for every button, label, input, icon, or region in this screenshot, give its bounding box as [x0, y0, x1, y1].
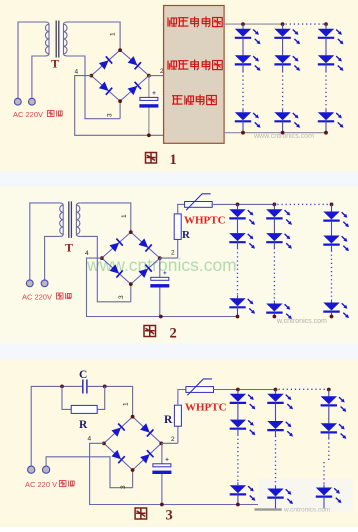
- LED string 2 bottom junction (fig2): [273, 315, 277, 319]
- wire (fig2): [237, 307, 239, 316]
- dotted wire: more LEDs (fig2): [273, 248, 275, 300]
- junction cap/minus rail (fig3): [160, 503, 164, 507]
- wire LED plus rail (fig3): [213, 389, 276, 391]
- wire (fig1): [242, 64, 244, 71]
- wire secondary bottom to node 3 (fig2): [81, 236, 131, 301]
- LED 3-3 (fig1): [318, 112, 334, 120]
- wire (fig2): [331, 221, 333, 236]
- wire LED minus rail (fig1): [224, 132, 326, 134]
- node 2 junction (fig1): [147, 74, 151, 78]
- LED string 1 top junction (fig2): [236, 203, 240, 207]
- wire (fig2): [237, 218, 239, 233]
- svg-text:1: 1: [170, 152, 177, 168]
- node 3 junction (fig3): [131, 468, 135, 472]
- dotted wire: more LEDs (fig1): [282, 71, 284, 108]
- wire (fig2): [273, 204, 275, 209]
- dotted wire: more LEDs (fig2): [237, 248, 239, 295]
- svg-text:1: 1: [110, 32, 117, 36]
- LED 3-2 (fig2): [323, 236, 339, 244]
- dotted wire: more LEDs (fig3): [328, 438, 330, 462]
- LED string 2 top junction (fig3): [274, 388, 278, 392]
- wire primary top (fig1): [18, 22, 45, 98]
- white watermark panel (fig3): [258, 478, 353, 511]
- junction cap/minus rail (fig2): [159, 315, 163, 319]
- wire terminal 2 to node 3 (fig3): [46, 457, 133, 488]
- wire (fig2): [331, 204, 333, 211]
- resistor R parallel (fig3): [71, 405, 97, 413]
- LED string 1 top junction (fig3): [236, 388, 240, 392]
- node 1 junction (fig1): [118, 48, 122, 52]
- wire (fig3): [237, 494, 239, 504]
- svg-text:AC 220 V: AC 220 V: [25, 480, 57, 489]
- wire secondary top to node 1 (fig2): [81, 203, 131, 232]
- LED string 1 bottom junction (fig1): [241, 131, 245, 135]
- svg-text:+: +: [165, 457, 169, 464]
- LED string 1 top junction (fig1): [241, 22, 245, 26]
- wire node 4 to minus rail (fig2): [87, 258, 238, 316]
- wire (fig3): [275, 498, 277, 509]
- junction cap/minus rail (fig1): [147, 133, 151, 137]
- wire (fig2): [237, 295, 239, 298]
- wire R parallel loop left (fig3): [62, 386, 71, 409]
- figure 2 background: [0, 187, 358, 344]
- LED string 3 bottom junction (fig1): [324, 131, 328, 135]
- wire (fig3): [275, 486, 277, 489]
- LED 3-1 (fig2): [323, 212, 339, 220]
- wire LED plus rail (fig1): [224, 23, 283, 25]
- wire LED string 2 (fig1): [282, 24, 284, 29]
- transformer T (fig1) core: [55, 21, 57, 58]
- wire node 4 to minus rail (fig3): [90, 443, 258, 504]
- wire (fig3): [323, 497, 325, 509]
- wire C right to node 1 (fig3): [87, 386, 132, 416]
- dotted wire: more LEDs (fig2): [331, 251, 333, 300]
- junction C/R parallel left (fig3): [60, 385, 64, 389]
- LED 1-1 (fig3): [230, 394, 246, 402]
- wire LED plus rail (fig2): [212, 203, 275, 205]
- svg-text:4: 4: [85, 250, 89, 257]
- wire node 2 to R branch (fig3): [161, 442, 178, 444]
- wire (fig3): [237, 403, 239, 420]
- LED 1-3 (fig3): [230, 485, 246, 493]
- svg-text:+: +: [152, 90, 156, 97]
- LED 1-3 (fig1): [235, 112, 251, 120]
- wire node 3 drop (fig3): [132, 470, 134, 488]
- box text line 1: constant-voltage source circuit (fig1): [167, 18, 169, 27]
- wire primary bottom (fig2): [45, 236, 60, 280]
- wire (fig1): [282, 38, 284, 56]
- dotted wire: more LEDs (fig3): [237, 435, 239, 483]
- bridge diode D-bottomleft (fig1), points to node 3: [99, 81, 113, 95]
- wire (fig1): [242, 121, 244, 133]
- svg-text:3: 3: [107, 113, 114, 117]
- wire node 3 drop (fig1): [119, 101, 121, 119]
- terminal 2 AC input (fig1): [29, 98, 36, 105]
- wire node 2 to R branch (fig2): [160, 257, 178, 259]
- wire LED string 1 (fig1): [242, 24, 244, 29]
- svg-text:R: R: [164, 414, 173, 426]
- bridge diode D-bottomleft (fig2), points to node 3: [109, 264, 123, 278]
- wire (fig3): [328, 432, 330, 438]
- caption fig 3: [135, 508, 147, 519]
- wire LED plus rail dotted segment (fig1): [286, 23, 324, 25]
- bridge diode D-bottomright (fig3), points to node 2: [140, 450, 154, 464]
- LED 2-3 (fig1): [274, 112, 290, 120]
- node 4 junction (fig2): [100, 256, 104, 260]
- LED 3-3 (fig2): [323, 303, 339, 311]
- node 1 junction (fig3): [131, 415, 135, 419]
- LED string 3 top junction (fig3): [327, 388, 331, 392]
- LED 2-3 (fig3): [267, 489, 283, 497]
- svg-text:3: 3: [118, 295, 125, 299]
- wire (fig1): [282, 109, 284, 113]
- caption fig 2: [144, 326, 156, 337]
- wire (fig3): [323, 485, 325, 488]
- wire primary bottom (fig1): [32, 56, 45, 98]
- figure 3 background: [0, 360, 358, 527]
- LED 1-2 (fig2): [229, 233, 245, 241]
- wire (fig3): [275, 403, 277, 421]
- wire secondary top to node 1 (fig1): [68, 22, 121, 50]
- wire R parallel loop right (fig3): [97, 386, 105, 409]
- bridge rectifier diamond (fig1): [91, 50, 149, 101]
- wire secondary bottom to node 3 (fig1): [68, 56, 121, 119]
- wire (fig1): [325, 109, 327, 113]
- terminal 1 AC input (fig3): [28, 466, 35, 473]
- wire (fig3): [237, 390, 239, 394]
- gap band 1: [0, 172, 358, 188]
- wire (fig1): [325, 64, 327, 71]
- svg-text:2: 2: [171, 436, 175, 443]
- watermark gray bar (fig3): [255, 508, 282, 510]
- LED 2-2 (fig2): [266, 233, 282, 241]
- svg-text:WHPTC: WHPTC: [184, 215, 226, 227]
- bridge diode D-bottomleft (fig3), points to node 3: [111, 450, 125, 464]
- bridge diode D-topleft (fig3), points to node 1: [111, 424, 125, 438]
- terminal 1 AC input (fig1): [14, 98, 21, 105]
- LED 1-3 (fig2): [229, 298, 245, 306]
- wire (fig1): [325, 121, 327, 133]
- svg-text:3: 3: [120, 485, 127, 489]
- LED 1-2 (fig1): [235, 55, 251, 63]
- wire cap top lead (fig2): [159, 258, 161, 277]
- wire LED plus rail dotted segment (fig2): [277, 203, 329, 205]
- LED 2-3 (fig2): [266, 304, 282, 312]
- bridge diode D-topleft (fig2), points to node 1: [109, 239, 123, 253]
- wire (fig1): [282, 121, 284, 133]
- wire node 3 drop (fig2): [130, 284, 132, 302]
- LED string 2 top junction (fig1): [281, 22, 285, 26]
- transformer T (fig1) windings: [45, 24, 49, 54]
- wire LED string 3 (fig1): [325, 24, 327, 29]
- svg-text:C: C: [79, 369, 87, 381]
- svg-text:+: +: [163, 270, 167, 277]
- wire primary top (fig2): [30, 203, 59, 280]
- wire (fig1): [242, 38, 244, 56]
- transformer T (fig2) windings: [60, 205, 63, 234]
- node 4 junction (fig3): [102, 441, 106, 445]
- box text line 3: protection circuit (fig1): [172, 95, 183, 97]
- junction C/R parallel right (fig3): [103, 385, 107, 389]
- node 3 junction (fig1): [118, 99, 122, 103]
- LED string 3 top junction (fig1): [324, 22, 328, 26]
- bridge diode D-topleft (fig1), points to node 1: [99, 56, 113, 70]
- LED 3-1 (fig1): [318, 29, 334, 37]
- svg-text:AC 220V: AC 220V: [13, 110, 43, 119]
- LED 3-1 (fig3): [321, 396, 337, 404]
- dotted wire: more LEDs (fig1): [325, 71, 327, 108]
- terminal 2 AC input (fig2): [41, 280, 48, 287]
- wire R bottom lead (fig2): [177, 239, 179, 258]
- LED 2-1 (fig1): [274, 29, 290, 37]
- wire (fig2): [331, 245, 333, 251]
- wire top from terminal1 to C (fig3): [31, 386, 82, 466]
- resistor R (fig2): [174, 214, 181, 240]
- LED 2-2 (fig1): [274, 55, 290, 63]
- LED 2-1 (fig2): [266, 209, 282, 217]
- svg-text:4: 4: [75, 69, 79, 76]
- LED string 3 top junction (fig2): [330, 203, 334, 207]
- wire (fig2): [237, 242, 239, 248]
- svg-text:4: 4: [88, 436, 92, 443]
- wire cap bottom lead (fig3): [161, 474, 163, 505]
- wire (fig1): [242, 109, 244, 113]
- wire R top to thermistor (fig3): [178, 390, 186, 406]
- node 1 junction (fig2): [129, 230, 133, 234]
- svg-text:www.cntronics.com: www.cntronics.com: [253, 133, 314, 140]
- LED 1-1 (fig1): [235, 29, 251, 37]
- wire (fig3): [328, 390, 330, 397]
- wire (fig3): [275, 430, 277, 436]
- node 2 junction (fig3): [159, 441, 163, 445]
- transformer T (fig2) core: [68, 201, 70, 238]
- wire R bottom lead (fig3): [177, 426, 179, 443]
- wire (fig3): [237, 482, 239, 485]
- LED string 2 top junction (fig2): [273, 203, 277, 207]
- bridge diode D-topright (fig2), points to node 2: [138, 238, 152, 252]
- driver module box (fig1): [164, 6, 225, 144]
- wire (fig2): [331, 312, 333, 317]
- LED string 2 bottom junction (fig1): [281, 131, 285, 135]
- wire (fig2): [273, 313, 275, 317]
- bridge diode D-topright (fig3), points to node 2: [140, 423, 154, 437]
- terminal 2 AC input (fig3): [43, 466, 50, 473]
- thermistor WHPTC R (fig2): [185, 202, 213, 208]
- gap band 2: [0, 344, 358, 361]
- LED string 1 bottom junction (fig2): [236, 315, 240, 319]
- wire (fig2): [273, 242, 275, 248]
- figure 1 background: [0, 0, 358, 172]
- wire LED plus rail dotted segment (fig3): [279, 388, 325, 390]
- wire (fig3): [275, 390, 277, 394]
- wire cap bottom lead (fig1): [148, 108, 150, 136]
- bridge diode D-bottomright (fig2), points to node 2: [138, 265, 152, 279]
- bridge diode D-topright (fig1), points to node 2: [127, 56, 141, 70]
- node 4 junction (fig1): [89, 74, 93, 78]
- dotted wire: more LEDs (fig1): [242, 71, 244, 108]
- LED 2-2 (fig3): [267, 421, 283, 429]
- svg-text:R: R: [182, 229, 191, 241]
- bridge diode D-bottomright (fig1), points to node 2: [127, 82, 141, 96]
- wire cap top lead (fig3): [161, 443, 163, 463]
- LED string 3 bottom junction (fig2): [330, 315, 334, 319]
- svg-text:R: R: [79, 419, 88, 431]
- bridge rectifier diamond (fig3): [104, 417, 161, 470]
- resistor R series (fig3): [174, 405, 181, 426]
- bridge rectifier diamond (fig2): [102, 232, 160, 284]
- box text line 2: constant-current source circuit (fig1): [167, 61, 169, 70]
- wire node 2 to module box (fig1): [149, 75, 164, 77]
- wire (fig2): [273, 218, 275, 233]
- svg-text:2: 2: [170, 325, 177, 341]
- wire (fig2): [331, 300, 333, 303]
- wire node 4 to minus rail (fig1): [75, 76, 164, 136]
- svg-text:T: T: [65, 241, 73, 255]
- wire (fig1): [325, 38, 327, 56]
- LED 3-2 (fig3): [321, 423, 337, 431]
- LED 1-2 (fig3): [230, 420, 246, 428]
- svg-text:3: 3: [166, 507, 173, 523]
- svg-text:w.cntronics.com: w.cntronics.com: [283, 507, 330, 514]
- wire (fig3): [237, 429, 239, 435]
- svg-text:WHPTC: WHPTC: [185, 402, 227, 414]
- node 2 junction (fig2): [158, 256, 162, 260]
- wire (fig3): [328, 405, 330, 423]
- svg-text:T: T: [51, 57, 59, 71]
- thermistor WHPTC R (fig3): [186, 387, 214, 393]
- wire cap bottom lead (fig2): [159, 287, 161, 316]
- LED 3-2 (fig1): [318, 55, 334, 63]
- svg-text:w.cntronics.com: w.cntronics.com: [276, 318, 327, 325]
- dotted wire: more LEDs (fig3): [275, 436, 277, 486]
- wire cap top lead (fig1): [148, 76, 150, 98]
- LED string 1 bottom junction (fig3): [236, 503, 240, 507]
- svg-text:AC 220V: AC 220V: [22, 293, 52, 302]
- LED 2-1 (fig3): [267, 394, 283, 402]
- svg-text:1: 1: [123, 402, 130, 406]
- svg-text:1: 1: [121, 214, 128, 218]
- terminal 1 AC input (fig2): [26, 280, 33, 287]
- wire R top to thermistor (fig2): [178, 204, 185, 214]
- capacitor C series plates (fig3): [82, 380, 84, 394]
- wire (fig2): [237, 204, 239, 209]
- caption fig 1: [146, 153, 157, 164]
- LED 1-1 (fig2): [229, 209, 245, 217]
- LED 3-3 (fig3): [316, 488, 332, 496]
- wire (fig1): [282, 64, 284, 71]
- wire (fig2): [273, 301, 275, 304]
- node 3 junction (fig2): [129, 282, 133, 286]
- svg-text:2: 2: [171, 250, 175, 257]
